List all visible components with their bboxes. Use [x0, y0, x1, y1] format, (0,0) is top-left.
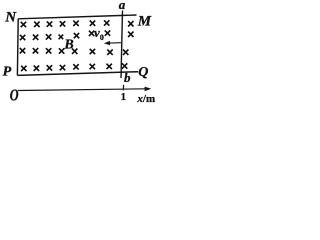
wire left edge N-P of field rectangle [16, 19, 19, 76]
svg-text:0: 0 [100, 33, 104, 42]
node v0 arrowhead [104, 41, 110, 45]
magnetic flux crosses row 2 [20, 30, 134, 40]
svg-text:b: b [124, 70, 131, 85]
svg-text:x/m: x/m [136, 93, 155, 105]
wire x axis line [18, 89, 147, 91]
svg-text:N: N [4, 10, 17, 26]
svg-text:a: a [119, 0, 126, 12]
wire axis tick at x=1 [122, 85, 124, 91]
svg-text:Q: Q [138, 65, 148, 80]
wire v0 velocity arrow shaft [106, 42, 121, 45]
svg-text:B: B [63, 37, 73, 52]
svg-text:P: P [3, 64, 12, 79]
wire top edge N-M of field rectangle [18, 15, 136, 19]
magnetic flux crosses row 4 [21, 63, 127, 71]
svg-text:O: O [10, 87, 19, 105]
svg-text:1: 1 [121, 91, 127, 103]
magnetic flux crosses row 3 [20, 48, 129, 55]
magnetic flux crosses row 1 [21, 20, 134, 27]
svg-text:M: M [137, 13, 152, 29]
node x axis arrowhead [145, 87, 152, 92]
wire vertical line a-b [121, 11, 123, 79]
wire bottom edge P-Q of field rectangle [17, 72, 138, 76]
